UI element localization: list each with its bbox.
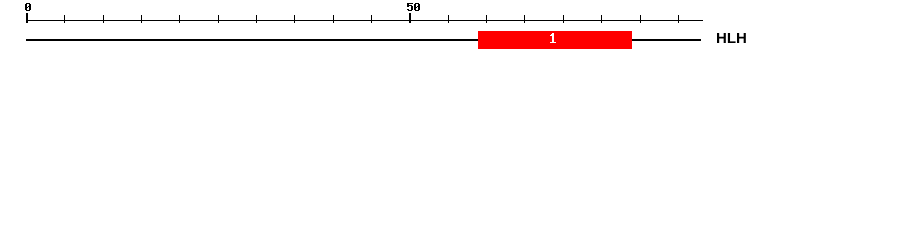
ruler major tick 0 [26, 13, 28, 23]
svg-text:HLH: HLH [716, 30, 747, 47]
ruler minor ticks [64, 15, 679, 23]
domain box 1 (red) [478, 31, 632, 49]
ruler label "0" [25, 3, 31, 11]
domain label "1" [550, 33, 556, 43]
ruler line [26, 20, 703, 21]
protein backbone line [26, 39, 701, 41]
ruler major tick 50 [409, 13, 411, 23]
ruler label "50" [407, 3, 420, 11]
background [0, 0, 900, 58]
